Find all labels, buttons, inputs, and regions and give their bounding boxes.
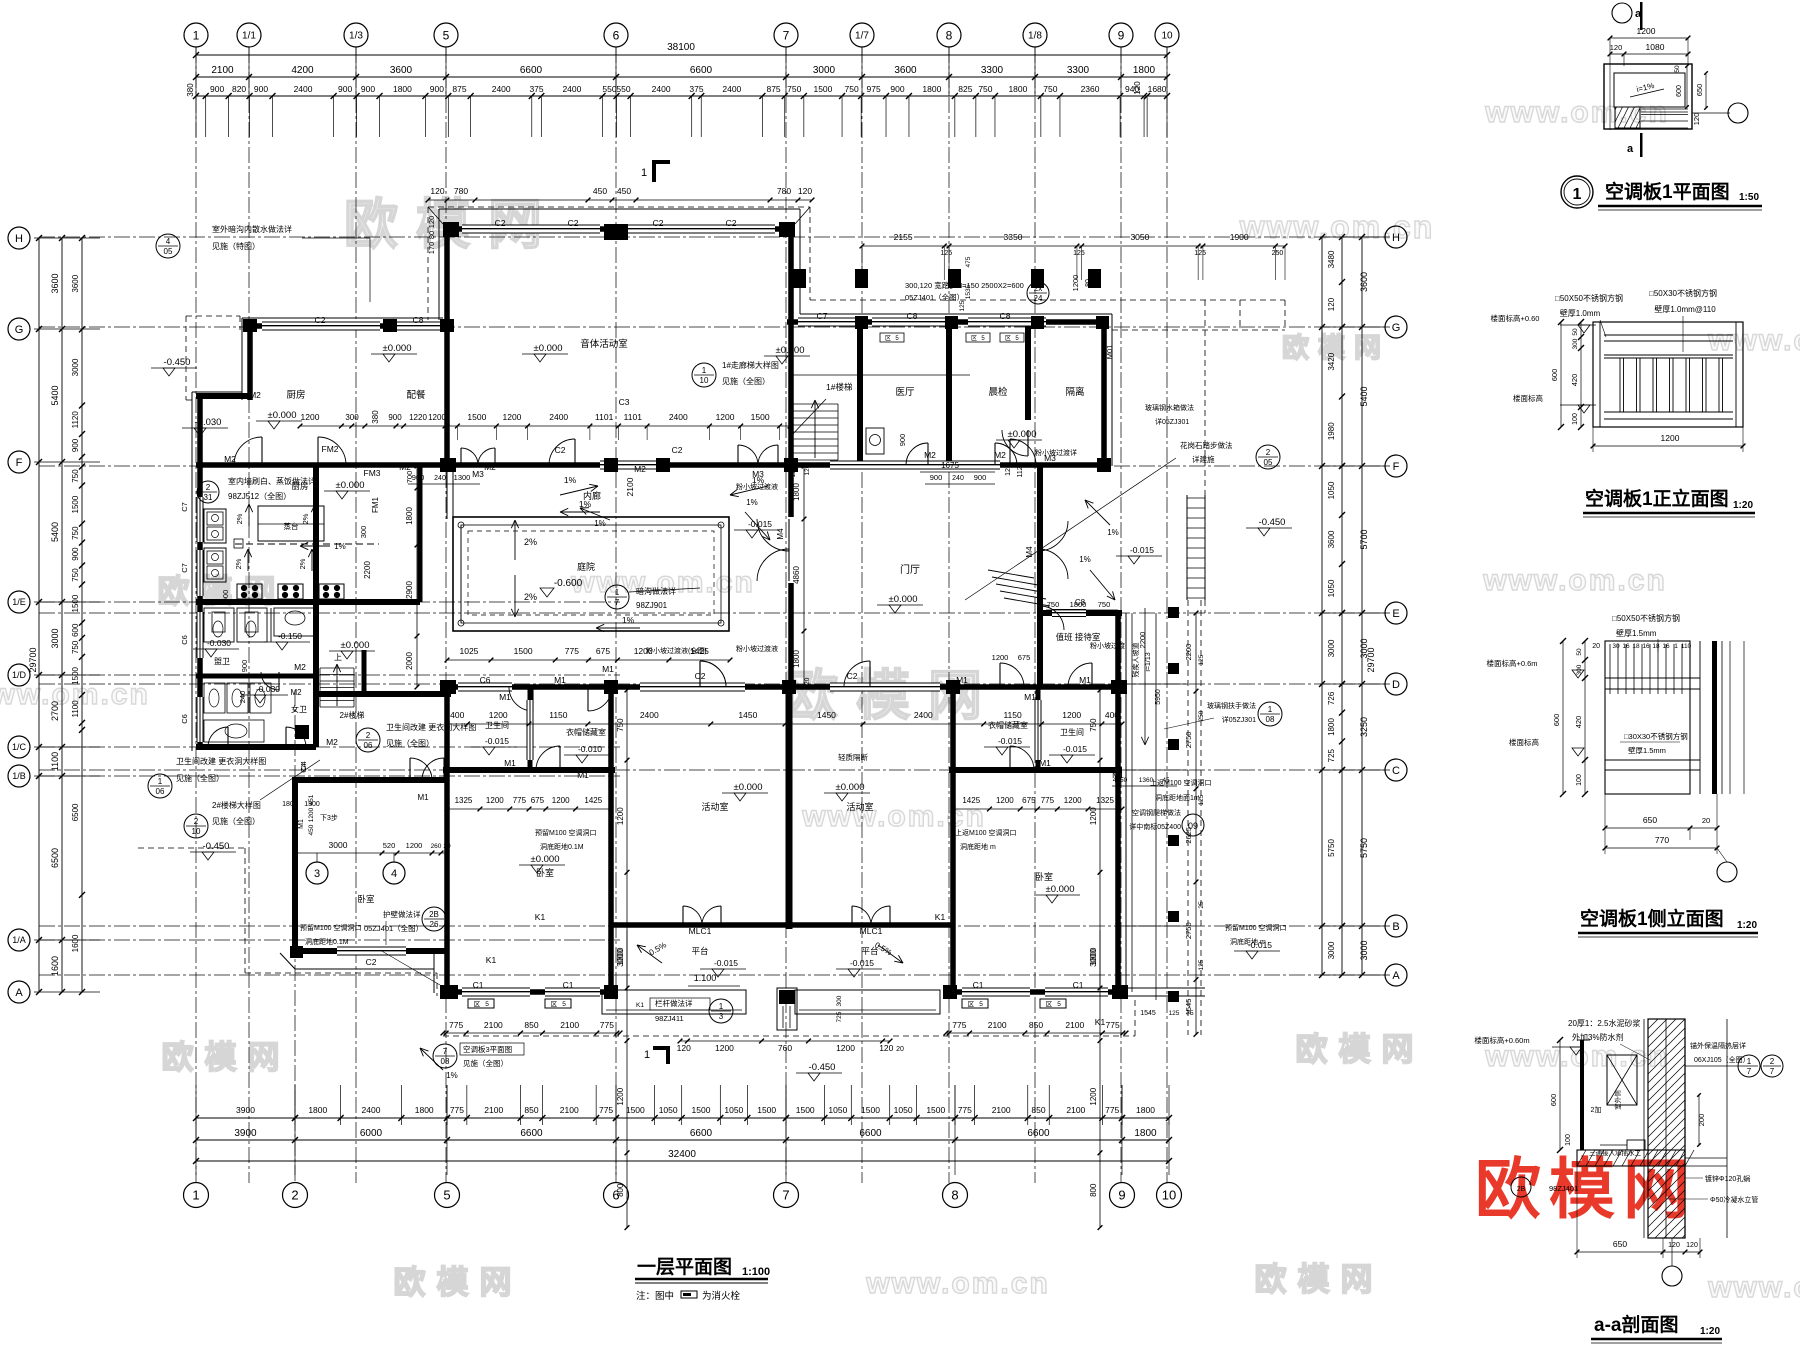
svg-text:1200: 1200 [552,796,570,805]
svg-text:375: 375 [689,84,703,94]
svg-text:400: 400 [1105,710,1119,720]
svg-text:1800: 1800 [1070,600,1087,609]
svg-text:06: 06 [364,741,373,750]
svg-text:750: 750 [71,526,80,540]
svg-text:725: 725 [1327,748,1336,762]
svg-text:粉小坡过渡液: 粉小坡过渡液 [736,644,778,653]
svg-text:上返M100 空调洞口: 上返M100 空调洞口 [1150,778,1211,787]
svg-text:M2: M2 [249,390,261,400]
svg-text:1500: 1500 [796,1105,815,1115]
svg-text:80: 80 [1085,279,1092,287]
svg-text:170: 170 [427,242,436,255]
svg-text:1800: 1800 [1008,84,1027,94]
svg-text:3600: 3600 [71,274,80,292]
svg-text:www.om.cn: www.om.cn [1707,324,1800,357]
svg-text:-0.015: -0.015 [714,958,738,968]
svg-text:1%: 1% [1079,555,1091,564]
svg-text:900: 900 [71,547,80,561]
svg-text:1200: 1200 [716,412,735,422]
svg-text:775: 775 [513,796,527,805]
svg-text:775: 775 [1106,1020,1120,1030]
svg-text:1500: 1500 [467,412,486,422]
svg-text:预留M100 空调洞口: 预留M100 空调洞口 [535,828,596,837]
svg-text:3250: 3250 [1359,717,1369,737]
svg-text:蒸台: 蒸台 [284,521,299,531]
svg-text:2%: 2% [524,592,537,602]
svg-text:1:20: 1:20 [1700,1326,1720,1337]
svg-text:7: 7 [1770,1067,1775,1076]
svg-text:平台: 平台 [691,946,708,956]
svg-text:C3: C3 [619,397,630,407]
svg-text:-0.015: -0.015 [998,736,1022,746]
svg-text:1: 1 [158,777,163,786]
svg-text:M1: M1 [417,793,429,802]
svg-text:1200: 1200 [308,807,315,822]
svg-text:2100: 2100 [988,1020,1007,1030]
svg-text:1800: 1800 [415,1105,434,1115]
svg-text:锚外保温隔热层详: 锚外保温隔热层详 [1690,1041,1746,1050]
svg-text:1500: 1500 [926,1105,945,1115]
svg-text:2360: 2360 [1081,84,1100,94]
svg-text:1: 1 [1747,1057,1752,1066]
svg-text:650: 650 [1695,84,1704,97]
svg-text:栏杆做法详: 栏杆做法详 [655,998,693,1008]
svg-text:38100: 38100 [667,42,695,53]
svg-text:2400: 2400 [640,710,659,720]
svg-text:2: 2 [194,817,199,826]
svg-text:C7: C7 [180,502,189,512]
svg-text:06: 06 [156,787,165,796]
svg-text:1050: 1050 [1327,481,1336,499]
svg-text:650: 650 [1613,1239,1627,1249]
svg-text:C: C [1392,765,1400,777]
svg-text:壁厚1.5mm: 壁厚1.5mm [1628,745,1666,755]
svg-text:±0.000: ±0.000 [383,343,412,354]
svg-text:1500: 1500 [861,1105,880,1115]
svg-text:600: 600 [1676,85,1683,97]
svg-text:C8: C8 [1000,311,1011,321]
svg-text:5750: 5750 [1359,838,1369,858]
svg-text:120: 120 [427,216,436,229]
svg-text:1200: 1200 [489,710,508,720]
svg-text:G: G [1392,322,1401,334]
svg-text:1600: 1600 [71,934,80,952]
svg-text:1800: 1800 [1134,1128,1157,1139]
svg-text:区: 区 [885,335,891,342]
svg-text:1#楼梯: 1#楼梯 [826,382,853,392]
svg-text:2000: 2000 [405,652,414,670]
svg-text:C2: C2 [672,445,683,455]
svg-text:2200: 2200 [363,561,372,579]
svg-text:楼面标高+0.6m: 楼面标高+0.6m [1486,658,1537,668]
svg-text:1200: 1200 [1064,796,1082,805]
svg-text:□50X50不锈钢方钢: □50X50不锈钢方钢 [1555,293,1623,303]
svg-text:6000: 6000 [360,1128,383,1139]
svg-text:卫生间: 卫生间 [1060,727,1084,737]
svg-text:250: 250 [1272,250,1284,257]
svg-text:2100: 2100 [1065,1020,1084,1030]
svg-text:2%: 2% [301,513,310,524]
svg-text:区: 区 [1005,335,1011,342]
svg-text:-0.150: -0.150 [278,631,302,641]
svg-text:6600: 6600 [690,1128,713,1139]
svg-text:1050: 1050 [659,1105,678,1115]
svg-text:120: 120 [790,466,797,477]
svg-text:3600: 3600 [1359,272,1369,292]
svg-text:2750: 2750 [1184,922,1193,939]
svg-text:2: 2 [206,483,211,492]
svg-text:6600: 6600 [1027,1128,1050,1139]
svg-text:750: 750 [1043,84,1057,94]
svg-text:10: 10 [192,827,201,836]
svg-text:750: 750 [787,84,801,94]
svg-text:2400: 2400 [652,84,671,94]
svg-text:M1: M1 [298,819,305,829]
svg-text:1/D: 1/D [12,670,27,680]
svg-text:32400: 32400 [668,1149,696,1160]
svg-text:区: 区 [1046,1000,1053,1008]
svg-text:3000: 3000 [1327,941,1336,959]
svg-text:2200: 2200 [1184,644,1193,661]
svg-text:3000: 3000 [50,628,60,648]
svg-text:2400: 2400 [722,84,741,94]
svg-text:-0.015: -0.015 [850,958,874,968]
svg-text:5750: 5750 [1327,839,1336,857]
svg-text:975: 975 [867,84,881,94]
svg-text:活动室: 活动室 [846,801,873,812]
svg-text:120: 120 [1610,43,1623,52]
svg-text:注：图中: 注：图中 [636,1290,674,1302]
svg-text:675: 675 [596,646,610,656]
svg-text:空调钢爬梯做法: 空调钢爬梯做法 [1132,808,1181,817]
svg-text:675: 675 [1022,796,1036,805]
svg-text:3000: 3000 [71,358,80,376]
svg-text:100: 100 [1572,413,1579,425]
svg-text:24: 24 [1034,294,1043,303]
svg-text:上: 上 [334,653,342,662]
svg-text:粉小坡过渡详: 粉小坡过渡详 [1035,448,1077,457]
svg-text:1200: 1200 [301,412,320,422]
svg-text:±0.000: ±0.000 [734,782,763,793]
svg-text:1680: 1680 [1148,84,1167,94]
svg-text:1#走廊梯大样图: 1#走廊梯大样图 [722,360,779,370]
svg-text:1500: 1500 [71,666,80,684]
svg-text:1500: 1500 [692,1105,711,1115]
svg-text:1%: 1% [334,542,346,551]
svg-text:1600: 1600 [50,956,60,976]
svg-text:F: F [1393,461,1400,473]
svg-text:18: 18 [1632,643,1640,650]
svg-text:780: 780 [777,186,791,196]
svg-text:M3: M3 [472,469,484,479]
svg-text:125: 125 [940,250,952,257]
svg-text:1800: 1800 [792,483,801,501]
svg-text:-0.015: -0.015 [1063,744,1087,754]
svg-text:2%: 2% [234,558,243,569]
svg-text:K1: K1 [535,912,546,922]
svg-text:1%: 1% [1107,528,1119,537]
svg-text:±0.000: ±0.000 [534,343,563,354]
svg-text:675: 675 [531,796,545,805]
svg-text:800: 800 [616,1183,625,1197]
svg-text:9: 9 [1118,1188,1125,1203]
svg-text:800: 800 [1089,1183,1098,1197]
svg-text:晨检: 晨检 [988,386,1008,398]
svg-text:5700: 5700 [1359,529,1369,549]
svg-text:2400: 2400 [549,412,568,422]
svg-text:420: 420 [1574,716,1583,729]
svg-text:260: 260 [431,843,442,850]
svg-text:详中南标05Z400: 详中南标05Z400 [1129,822,1181,831]
svg-text:20: 20 [896,1046,904,1053]
svg-text:2400: 2400 [562,84,581,94]
svg-text:A: A [15,987,23,999]
svg-text:6500: 6500 [50,848,60,868]
svg-text:4860: 4860 [792,566,801,584]
svg-text:1150: 1150 [549,710,568,720]
svg-text:2%: 2% [235,513,244,524]
svg-text:±0.000: ±0.000 [889,594,918,605]
svg-text:1200: 1200 [992,653,1009,662]
svg-text:H: H [1392,232,1400,244]
svg-text:1: 1 [1268,705,1273,714]
svg-text:1800: 1800 [308,1105,327,1115]
svg-text:6600: 6600 [520,65,543,76]
svg-text:i=1/13: i=1/13 [1145,652,1152,671]
svg-text:240: 240 [434,475,446,482]
svg-text:-0.030: -0.030 [256,684,280,694]
svg-text:M1: M1 [1024,692,1036,702]
svg-text:451: 451 [308,794,315,805]
svg-text:900: 900 [210,84,224,94]
svg-text:F: F [16,457,23,469]
svg-text:2400: 2400 [362,1105,381,1115]
svg-text:C1: C1 [473,980,484,990]
svg-text:护壁做法详: 护壁做法详 [383,909,421,919]
svg-text:2100: 2100 [211,65,234,76]
svg-text:-0.450: -0.450 [1259,517,1286,528]
svg-text:1800: 1800 [1136,1105,1155,1115]
svg-text:a: a [1627,143,1634,155]
svg-text:卫生间改建 更衣间大样图: 卫生间改建 更衣间大样图 [386,722,476,732]
svg-text:31: 31 [204,493,213,502]
svg-text:粉小坡过渡液(全图): 粉小坡过渡液(全图) [646,646,707,655]
svg-text:120: 120 [430,186,444,196]
svg-text:MLC1: MLC1 [860,926,883,936]
svg-text:750: 750 [1089,718,1098,732]
svg-text:庭院: 庭院 [577,561,595,572]
svg-text:875: 875 [452,84,466,94]
svg-text:厨房: 厨房 [286,389,305,401]
svg-text:1:20: 1:20 [1733,500,1753,511]
svg-text:9: 9 [1118,28,1125,42]
svg-text:详05ZJ301: 详05ZJ301 [1222,715,1256,724]
svg-text:1: 1 [1573,186,1582,203]
svg-text:1100: 1100 [71,700,80,718]
svg-text:区: 区 [968,1000,975,1008]
svg-text:C2: C2 [847,671,858,681]
svg-text:726: 726 [1327,691,1336,705]
svg-text:900: 900 [254,84,268,94]
svg-text:775: 775 [565,646,579,656]
svg-text:850: 850 [1031,1105,1045,1115]
svg-text:750: 750 [71,568,80,582]
svg-text:775: 775 [1105,1105,1119,1115]
svg-text:轻质隔断: 轻质隔断 [838,752,868,762]
svg-text:900: 900 [240,660,249,673]
svg-text:1:100: 1:100 [742,1266,770,1278]
svg-text:洞底距地 m: 洞底距地 m [960,842,996,851]
svg-text:卫生间: 卫生间 [485,720,509,730]
svg-text:M1: M1 [499,692,511,702]
svg-text:玻璃钢水箱做法: 玻璃钢水箱做法 [1145,403,1194,412]
svg-text:镀锌Φ120孔蜗: 镀锌Φ120孔蜗 [1705,1174,1750,1183]
svg-text:5: 5 [562,1001,566,1008]
svg-text:活动室: 活动室 [701,801,728,812]
svg-text:C6: C6 [180,714,189,724]
svg-text:750: 750 [71,469,80,483]
svg-text:M1: M1 [577,770,589,780]
svg-text:20厚1：2.5水泥砂浆: 20厚1：2.5水泥砂浆 [1568,1018,1640,1028]
svg-text:3000: 3000 [616,949,625,967]
svg-text:C4: C4 [299,761,308,771]
svg-text:1500: 1500 [757,1105,776,1115]
svg-text:1425: 1425 [584,796,602,805]
svg-text:欧模网: 欧模网 [393,1264,522,1300]
svg-text:900: 900 [388,413,402,422]
svg-text:见施（特图）: 见施（特图） [212,241,260,251]
svg-text:3000: 3000 [1089,949,1098,967]
svg-text:预留М100 空调洞口: 预留М100 空调洞口 [300,923,361,932]
svg-text:M1: M1 [554,675,566,685]
svg-text:□50X50不锈钢方钢: □50X50不锈钢方钢 [1612,613,1680,623]
svg-text:楼面标高+0.60m: 楼面标高+0.60m [1474,1035,1529,1045]
svg-text:6500: 6500 [71,803,80,821]
svg-text:区: 区 [551,1000,558,1008]
svg-text:750: 750 [978,84,992,94]
svg-text:欧模网: 欧模网 [1475,1152,1697,1226]
svg-text:www.om.cn: www.om.cn [801,800,986,833]
svg-text:250: 250 [1198,710,1205,721]
svg-text:衣帽储藏室: 衣帽储藏室 [988,720,1028,730]
svg-text:775: 775 [958,1105,972,1115]
svg-text:29700: 29700 [1366,647,1376,672]
svg-text:05: 05 [1264,458,1273,467]
svg-text:K1: K1 [636,1002,644,1009]
svg-text:医厅: 医厅 [895,387,915,398]
svg-text:见施（全图）: 见施（全图） [386,738,434,748]
svg-text:820: 820 [232,84,246,94]
svg-text:□30X30不锈钢方钢: □30X30不锈钢方钢 [1624,731,1688,741]
svg-text:475: 475 [965,256,972,267]
svg-text:D: D [1392,679,1400,691]
svg-text:厨房: 厨房 [291,481,308,491]
svg-text:空调板3平面图: 空调板3平面图 [463,1044,512,1054]
svg-text:420: 420 [1570,374,1579,387]
svg-text:3300: 3300 [981,65,1004,76]
svg-text:300: 300 [1576,664,1583,675]
svg-text:29700: 29700 [28,647,38,672]
svg-text:1100: 1100 [50,752,60,771]
svg-text:M2: M2 [294,662,306,672]
svg-text:1200: 1200 [1637,26,1656,36]
svg-text:1800: 1800 [1327,718,1336,736]
svg-text:M3: M3 [752,469,764,479]
svg-text:725: 725 [836,1011,843,1022]
svg-text:380: 380 [371,410,380,424]
svg-text:900: 900 [930,473,943,482]
svg-text:125: 125 [1198,654,1205,665]
svg-text:900: 900 [338,84,352,94]
svg-text:1220: 1220 [409,413,427,422]
svg-text:5: 5 [443,28,450,42]
svg-text:2加: 2加 [1591,1105,1602,1114]
svg-text:3600: 3600 [50,273,60,293]
svg-text:1050: 1050 [1327,579,1336,597]
svg-text:1025: 1025 [460,646,479,656]
svg-text:2x: 2x [1034,284,1042,293]
svg-text:值班 接待室: 值班 接待室 [1056,632,1101,642]
svg-text:1500: 1500 [71,594,80,612]
svg-text:675: 675 [1018,653,1031,662]
svg-text:卧室: 卧室 [357,894,375,904]
svg-text:空调板1侧立面图: 空调板1侧立面图 [1580,907,1724,930]
svg-text:825: 825 [958,84,972,94]
svg-text:120: 120 [879,1043,893,1053]
svg-text:C2: C2 [315,315,326,325]
svg-text:C8: C8 [907,311,918,321]
svg-text:-0.030: -0.030 [195,417,222,428]
svg-text:C8: C8 [413,315,424,325]
svg-text:05ZJ401（全图）: 05ZJ401（全图） [905,292,964,302]
svg-text:1800: 1800 [393,84,412,94]
svg-text:外加3%防水剂: 外加3%防水剂 [1572,1032,1624,1042]
svg-text:C2: C2 [653,218,664,228]
svg-text:1200: 1200 [1661,433,1680,443]
svg-text:卧室: 卧室 [536,867,554,878]
svg-text:2: 2 [1266,448,1271,457]
svg-text:5950: 5950 [1155,689,1162,705]
svg-text:775: 775 [449,1020,463,1030]
svg-text:1200: 1200 [428,413,446,422]
svg-text:2100: 2100 [625,477,635,496]
svg-text:775: 775 [599,1105,613,1115]
svg-text:375: 375 [529,84,543,94]
svg-text:详建施: 详建施 [1192,454,1215,464]
svg-text:1450: 1450 [738,710,757,720]
svg-text:100: 100 [1565,1134,1572,1146]
svg-text:16: 16 [1662,643,1670,650]
svg-text:洞底距地0.1M: 洞底距地0.1M [305,937,349,946]
svg-text:下3步: 下3步 [320,814,338,822]
svg-text:上返M100 空调洞口: 上返M100 空调洞口 [955,828,1016,837]
svg-text:30: 30 [1612,643,1620,650]
svg-text:1101: 1101 [595,412,614,422]
svg-text:隔离: 隔离 [1065,386,1084,398]
svg-text:8: 8 [946,28,953,42]
svg-text:120: 120 [798,186,812,196]
svg-text:16: 16 [1622,643,1630,650]
svg-text:26: 26 [430,920,439,929]
svg-text:1/A: 1/A [12,935,26,945]
svg-text:花岗石踏步做法: 花岗石踏步做法 [1180,440,1233,450]
svg-text:4: 4 [391,868,397,880]
svg-text:见施（全图）: 见施（全图） [176,773,224,783]
svg-text:H: H [15,233,23,245]
svg-text:125: 125 [1073,250,1085,257]
svg-text:楼面标高: 楼面标高 [1513,393,1543,403]
svg-text:FM3: FM3 [364,468,381,478]
